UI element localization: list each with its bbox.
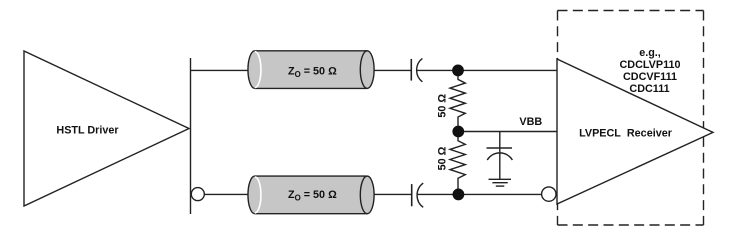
- svg-text:CDC111: CDC111: [629, 83, 669, 95]
- svg-text:50 Ω: 50 Ω: [437, 94, 449, 118]
- svg-text:e.g.,: e.g.,: [639, 47, 661, 59]
- svg-text:VBB: VBB: [519, 116, 542, 128]
- svg-text:50 Ω: 50 Ω: [437, 146, 449, 170]
- svg-text:CDCLVP110: CDCLVP110: [619, 59, 680, 71]
- svg-text:LVPECL Receiver: LVPECL Receiver: [579, 128, 673, 140]
- svg-text:CDCVF111: CDCVF111: [623, 71, 677, 83]
- svg-text:HSTL Driver: HSTL Driver: [56, 124, 119, 136]
